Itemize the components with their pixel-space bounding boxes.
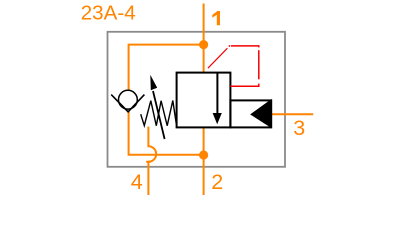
pilot triangle [251,100,271,128]
enclosure border [108,32,286,167]
wire port 2 vertical [203,128,205,195]
pilot line red dashed diagonal [208,48,228,68]
wire port 3 horizontal [271,113,313,115]
pilot line red right vertical dash [258,50,260,79]
svg-text:2: 2 [211,170,223,194]
svg-text:3: 3 [293,116,305,140]
pilot box [230,100,271,127]
pilot line red bottom run [230,84,258,87]
pilot line red dash dot [229,45,231,47]
node junction bottom [199,150,208,159]
check valve seat [111,95,144,112]
adjust arrow shaft [153,91,165,139]
check valve ball circle [119,90,138,109]
svg-text:23A-4: 23A-4 [81,1,136,24]
flow arrow shaft [216,73,218,114]
node junction top [199,40,208,49]
wire below check valve [129,111,204,155]
wire port 1 vertical [203,4,205,73]
port label 1 [212,11,220,25]
port 4 hop end tick [146,161,150,163]
valve body envelope [177,73,231,128]
adjust arrow head [150,75,157,90]
wire port 4 vertical with hop [148,127,156,195]
wire top-left run [129,45,204,91]
spring [141,101,177,126]
svg-text:4: 4 [131,170,143,194]
pilot line red top run [231,46,259,48]
flow arrow head [213,113,222,124]
